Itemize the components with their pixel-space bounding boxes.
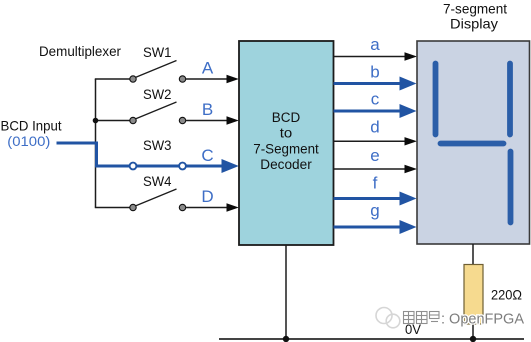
wire decoder to 0V: [285, 245, 287, 339]
svg-text:220Ω: 220Ω: [491, 287, 522, 303]
segment b lit: [507, 64, 513, 135]
svg-text:a: a: [370, 35, 380, 54]
svg-text:d: d: [370, 117, 379, 136]
switch SW3 closed contacts: [130, 163, 137, 170]
arrow d into display: [405, 137, 418, 145]
arrow g into display: [400, 220, 417, 234]
decoder U1 text: [253, 110, 319, 172]
arrow A into decoder: [227, 75, 239, 83]
svg-text:D: D: [201, 187, 213, 206]
svg-text:Decoder: Decoder: [260, 157, 312, 172]
svg-text:7-segment: 7-segment: [443, 1, 507, 17]
node junction resistor/0V: [470, 336, 476, 342]
svg-text:Display: Display: [450, 16, 498, 32]
wire bus vertical: [95, 79, 97, 208]
wire SW2 to decoder: [186, 120, 232, 122]
node junction bus/SW2: [93, 118, 99, 124]
node junction decoder/0V: [283, 336, 289, 342]
wire stub SW4: [95, 207, 130, 209]
svg-text:e: e: [370, 146, 379, 165]
svg-text:A: A: [202, 59, 214, 78]
svg-text:g: g: [370, 201, 379, 220]
switch SW1: [130, 61, 186, 83]
segment c lit: [508, 152, 514, 223]
arrow D into decoder: [227, 203, 239, 211]
switch SW2: [130, 102, 186, 124]
segment g lit: [441, 141, 504, 147]
arrow c into display: [400, 104, 417, 118]
svg-text:0V: 0V: [405, 321, 422, 337]
display DS1 box: [417, 41, 530, 244]
svg-text:to: to: [280, 126, 293, 141]
svg-text:SW1: SW1: [143, 44, 172, 60]
wire stub SW2: [96, 120, 131, 122]
arrow C into decoder: [222, 159, 239, 173]
switch SW4: [130, 189, 186, 211]
svg-text:(0100): (0100): [7, 133, 50, 149]
wire output f: [334, 197, 402, 200]
svg-text:BCD Input: BCD Input: [1, 118, 62, 134]
arrow e into display: [405, 165, 418, 173]
wire output d: [334, 140, 408, 142]
wire 0V rail: [219, 338, 524, 340]
decoder U1 box: [239, 41, 334, 245]
watermark text: [404, 312, 525, 328]
wire stub SW1: [95, 78, 130, 80]
svg-text:Demultiplexer: Demultiplexer: [39, 43, 121, 59]
arrow f into display: [400, 192, 417, 206]
wire output b: [334, 82, 402, 85]
wire output c: [334, 110, 402, 113]
wire output g: [334, 226, 402, 229]
svg-text:f: f: [373, 173, 378, 192]
svg-text:b: b: [370, 62, 379, 81]
svg-text:c: c: [371, 90, 380, 109]
wire display to resistor: [472, 244, 474, 265]
svg-text:: OpenFPGA: : OpenFPGA: [441, 312, 524, 328]
arrow b into display: [400, 77, 417, 91]
svg-text:B: B: [202, 100, 213, 119]
svg-text:SW3: SW3: [143, 137, 172, 153]
wire output a: [334, 56, 408, 58]
wire resistor to 0V: [472, 324, 474, 339]
resistor R1: [464, 265, 483, 325]
svg-text:BCD: BCD: [272, 110, 301, 125]
wire SW1 to decoder: [186, 78, 232, 80]
wire SW4 to decoder: [186, 207, 232, 209]
wire output e: [334, 168, 408, 170]
watermark logo: [376, 308, 400, 328]
svg-text:SW2: SW2: [143, 86, 172, 102]
arrow a into display: [405, 52, 418, 60]
svg-text:7-Segment: 7-Segment: [253, 141, 319, 156]
arrow B into decoder: [227, 116, 239, 124]
svg-text:SW4: SW4: [143, 173, 172, 189]
svg-text:C: C: [201, 146, 213, 165]
wire BCD input blue path through SW3: [57, 143, 224, 166]
segment f lit: [433, 64, 439, 135]
